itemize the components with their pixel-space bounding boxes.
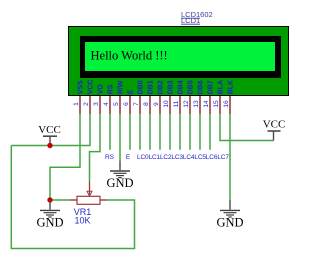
- wire VSS pin1 to ground junction: [50, 114, 80, 200]
- pin 8 DB1: [143, 80, 154, 114]
- wire E pin6 stub: [129, 114, 131, 150]
- svg-text:VSS: VSS: [77, 80, 84, 94]
- svg-text:GND: GND: [36, 216, 63, 230]
- pin 3 VO: [93, 84, 104, 114]
- svg-text:8: 8: [143, 102, 150, 106]
- pin 6 E: [123, 89, 134, 114]
- net label RS: [105, 154, 115, 161]
- svg-text:DB0: DB0: [137, 80, 144, 94]
- svg-text:16: 16: [223, 100, 230, 108]
- svg-text:2: 2: [83, 102, 90, 106]
- pin 12 DB5: [183, 80, 194, 114]
- LCD screen text "Hello World !!!": [91, 49, 168, 63]
- svg-text:LC0LC1LC2LC3LC4LC5LC6LC7: LC0LC1LC2LC3LC4LC5LC6LC7: [137, 154, 229, 161]
- svg-text:12: 12: [183, 100, 190, 108]
- svg-text:VCC: VCC: [263, 118, 286, 130]
- wire ground junction to potentiometer left terminal: [50, 199, 70, 201]
- wire DB1 pin8 stub: [149, 114, 151, 150]
- pin 13 DB6: [193, 80, 204, 114]
- wire VCC rail to pin2: [11, 114, 90, 146]
- wire DB5 pin12 stub: [189, 114, 191, 150]
- svg-text:1: 1: [73, 102, 80, 106]
- svg-text:15: 15: [213, 100, 220, 108]
- ground middle (R/W): [106, 161, 133, 190]
- wire DB0 pin7 stub: [139, 114, 141, 150]
- pin 9 DB2: [153, 80, 164, 114]
- ground bottom left: [36, 200, 63, 230]
- wire BLK pin16 to ground right: [229, 114, 231, 200]
- svg-text:3: 3: [93, 102, 100, 106]
- pin 15 BLA: [213, 80, 224, 114]
- svg-text:DB3: DB3: [167, 80, 174, 94]
- svg-text:DB7: DB7: [207, 80, 214, 94]
- svg-text:DB1: DB1: [147, 80, 154, 94]
- svg-text:VCC: VCC: [38, 124, 61, 136]
- reference label LCD1: [181, 16, 200, 25]
- wire BLA pin15 to VCC right: [220, 114, 274, 141]
- value label LCD1602: [181, 10, 213, 19]
- junction node dot ground: [47, 197, 52, 202]
- pin 4 RS: [103, 84, 114, 114]
- wire DB7 pin14 stub: [209, 114, 211, 150]
- svg-text:5: 5: [113, 102, 120, 106]
- svg-text:4: 4: [103, 102, 110, 106]
- svg-text:RS: RS: [105, 154, 115, 161]
- svg-text:VCC: VCC: [87, 80, 94, 95]
- pin 14 DB7: [203, 80, 214, 114]
- power VCC right: [263, 118, 286, 140]
- ground right (BLK): [216, 200, 243, 230]
- LCD screen: [85, 42, 275, 71]
- svg-text:BLK: BLK: [227, 80, 234, 94]
- wire DB2 pin9 stub: [159, 114, 161, 150]
- wire VCC loop to potentiometer right terminal: [11, 146, 134, 249]
- svg-text:14: 14: [203, 100, 210, 108]
- svg-text:7: 7: [133, 102, 140, 106]
- svg-text:DB6: DB6: [197, 80, 204, 94]
- svg-text:10: 10: [163, 100, 170, 108]
- LCD module LCD1 body: [69, 27, 289, 96]
- svg-text:LCD1: LCD1: [181, 16, 200, 25]
- wire R/W pin5 to ground: [119, 114, 121, 161]
- svg-text:10K: 10K: [74, 216, 90, 226]
- svg-text:GND: GND: [216, 216, 243, 230]
- svg-text:E: E: [127, 89, 134, 94]
- svg-text:DB2: DB2: [157, 80, 164, 94]
- svg-text:DB4: DB4: [177, 80, 184, 94]
- svg-text:GND: GND: [106, 176, 133, 190]
- svg-text:R/W: R/W: [117, 80, 124, 94]
- svg-text:13: 13: [193, 100, 200, 108]
- LCD screen bezel: [80, 36, 281, 78]
- svg-text:VO: VO: [97, 84, 104, 95]
- pin 5 R/W: [113, 80, 124, 114]
- junction node dot VCC rail: [47, 143, 52, 148]
- wire DB6 pin13 stub: [199, 114, 201, 150]
- pin 2 VCC: [83, 80, 94, 114]
- wire DB4 pin11 stub: [179, 114, 181, 150]
- potentiometer VR1 10K: [70, 182, 107, 226]
- net labels LC0 LC1 LC2 LC3 LC4 LC5 LC6 LC7: [137, 154, 229, 161]
- wire DB3 pin10 stub: [169, 114, 171, 150]
- pin 11 DB4: [173, 80, 184, 114]
- pin 7 DB0: [133, 80, 144, 114]
- svg-text:BLA: BLA: [217, 80, 224, 94]
- power VCC left: [38, 124, 61, 145]
- svg-text:E: E: [126, 154, 131, 161]
- svg-text:RS: RS: [107, 84, 114, 94]
- svg-text:9: 9: [153, 102, 160, 106]
- svg-text:DB5: DB5: [187, 80, 194, 94]
- svg-text:Hello World !!!: Hello World !!!: [91, 49, 168, 63]
- pin 1 VSS: [73, 80, 84, 114]
- svg-text:11: 11: [173, 100, 180, 107]
- pin 10 DB3: [163, 80, 174, 114]
- pin 16 BLK: [223, 80, 234, 114]
- wire VO pin3 to potentiometer wiper: [90, 114, 101, 182]
- wire RS pin4 stub: [109, 114, 111, 150]
- net label E: [126, 154, 131, 161]
- svg-text:6: 6: [123, 102, 130, 106]
